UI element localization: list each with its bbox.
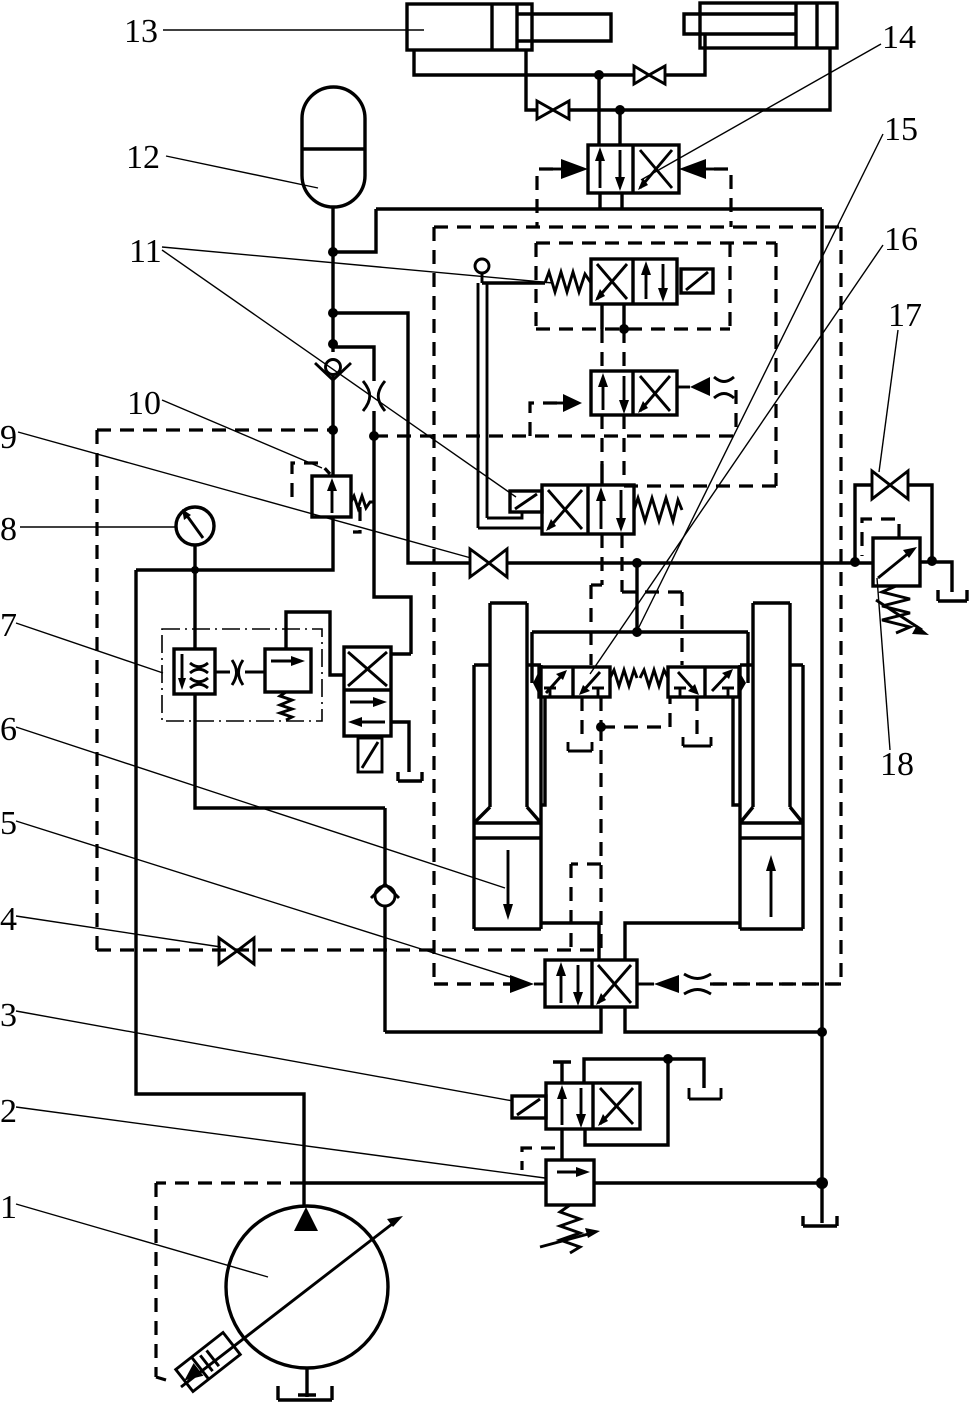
relief 18 pilot dash [862,519,899,556]
valve 11 top down arrow [658,264,668,302]
pilot dash valve14 left [537,169,553,227]
svg-text:13: 13 [124,13,158,50]
valve 5 body [545,960,637,1007]
accumulator 12 [302,87,365,207]
relief tank [938,590,967,601]
svg-text:17: 17 [888,297,922,334]
cylinder right taper [740,807,803,823]
wire left main down [136,570,304,1207]
wire valve14 right port down [620,193,623,209]
valve 11 top body [591,259,677,304]
node R3 [927,556,937,566]
dashed enclosure main block [434,227,841,984]
node TP [596,722,606,732]
dash-dot box 7 [162,629,322,721]
node A4 [328,425,338,435]
twin valve left arrow2 [579,672,600,695]
leader 8 [20,526,176,528]
dashed pilot box1 [536,243,776,329]
node V3 [663,1054,673,1064]
wire valve14 left port down [598,193,601,209]
valve 11 bottom up arrow [596,487,606,529]
wire to bottom tank [820,1183,823,1223]
bottom right tank [803,1216,837,1226]
node A3 [328,339,338,349]
selector valve body [344,647,391,736]
valve 11 top up arrow [641,261,651,299]
leader 14 [641,44,881,180]
flow valve 7 left box [174,649,215,694]
dash pilot line y436 [374,434,736,437]
dash twin right drain [695,697,698,737]
wire twin right port to cylinder [733,697,740,805]
wire right cyl bottom port [625,923,740,960]
pump 1 circle [226,1206,388,1368]
wire valve2 out [594,1181,822,1184]
wire accumulator stem [331,207,334,352]
svg-text:5: 5 [0,805,17,842]
leader 12 [166,156,318,188]
cylinder right barrel [740,665,803,929]
valve3 tank [689,1088,721,1099]
relief valve 2 body [546,1160,594,1205]
selector solenoid [358,738,382,772]
selector tank [391,722,422,781]
leader 3 [16,1011,513,1101]
valve 3 crossed arrows [598,1088,633,1126]
dash pump pilot [156,1183,304,1380]
svg-text:18: 18 [880,746,914,783]
leader 4 [16,916,221,947]
cylinder 13 left rod [517,14,611,41]
wire bar right drop [746,632,749,683]
twin left drain tank [568,742,592,751]
wire throttle down [374,411,411,654]
twin valve right actuator [739,671,746,695]
leader 13 [163,29,424,31]
pump outlet triangle [294,1207,318,1231]
cylinder 13 left piston [492,4,517,50]
wire pump discharge [304,1181,546,1184]
leader 10 [162,400,322,468]
valve 10 spring [351,496,373,508]
twin valve right arrow1 [678,672,699,695]
valve 14 down arrow [615,150,625,191]
selector valve X [348,652,387,686]
cylinder right rod [753,603,790,807]
leader 16 [590,245,883,674]
dash valve5 left pilot [434,982,510,985]
node A2 [328,308,338,318]
linkage double line [478,283,487,528]
wire bowtie2 to right cyl cap port [569,48,830,110]
leader 1 [16,1204,268,1277]
svg-text:6: 6 [0,711,17,748]
valve 14 body [588,145,679,193]
leader 7 [16,623,163,673]
valve 11 top crossed arrows [595,264,627,301]
valve 5 throttle [684,974,711,994]
cylinder 6 left piston line [474,836,541,839]
twin right drain tank [683,737,711,746]
dash valve5 right pilot [713,982,841,985]
wire branch to throttle [333,347,374,381]
wire bar left drop [530,632,533,683]
wire valve10 down [136,517,333,570]
valve 11 bottom crossed arrows [546,490,582,531]
twin valve left tanks [544,688,604,696]
relief 18 adjust arrow [876,600,929,635]
cylinder 6 left barrel [474,665,541,929]
wire J1 down to valve14 [597,75,600,145]
dashed pilot box3 [622,243,776,486]
leader 9 [18,432,471,558]
dash valve11b top ports [602,415,624,485]
svg-text:11: 11 [129,233,162,270]
twin valve right body [668,667,739,697]
pump variable arrow [181,1216,403,1387]
linkage L outer [478,527,542,530]
valve 3 up arrow [557,1085,567,1125]
wire branch to relief line [333,313,408,561]
valve 11 bottom body [542,485,634,534]
dashed enclosure left block [97,430,601,950]
twin valve left actuator [533,671,539,695]
node BAR [632,627,642,637]
valve 16 right pilot arrow [677,377,710,396]
valve 5 up arrow [556,962,566,1003]
svg-text:3: 3 [0,997,17,1034]
relief assembly riser [855,485,872,562]
valve 2 spring [560,1205,580,1253]
valve 16 left pilot arrow [557,394,582,412]
valve 11 top spring [545,272,591,292]
compensator 7 right box [265,649,311,692]
wire valve11b top left port [600,464,603,485]
svg-text:15: 15 [884,111,918,148]
pressure reducing valve 10 [312,476,351,517]
svg-text:1: 1 [0,1189,17,1226]
wire riser to bar [635,563,638,632]
valve 14 right solenoid arrow [679,159,714,179]
valve 3 plug port [553,1062,571,1083]
node P1 [816,1177,828,1189]
svg-text:14: 14 [882,19,916,56]
dash pilot long down [571,727,601,950]
dash valve16 right pilot down [734,390,737,436]
leader 11b [162,250,516,497]
dash valve16 top ports [602,329,624,371]
cylinder 6 left rod [490,603,527,807]
svg-text:9: 9 [0,419,17,456]
cylinder right up arrow [766,855,776,917]
leader 5 [16,821,513,978]
check valve main line [315,360,351,381]
compensator spring [280,692,292,720]
shutoff valve top-left [537,101,569,119]
node gauge tee [191,566,199,574]
wire relief line [408,561,873,563]
wire valve11top bottom ports [602,304,624,329]
shutoff valve 4 [219,938,254,964]
cylinder 13 right rod [684,14,796,34]
dash valve2 pilot [522,1148,555,1170]
node A1 [328,247,338,257]
throttle 7 [232,660,243,685]
shutoff valve 17 [872,471,908,499]
cylinder 13 right body [700,3,837,48]
wire left cyl bottom port [541,923,599,960]
wire left cyl cap port [414,50,599,75]
svg-text:10: 10 [127,385,161,422]
svg-text:12: 12 [126,139,160,176]
valve 16 up arrow [598,373,608,410]
pressure gauge 8 [176,507,214,545]
node J2 [615,105,625,115]
check valve lift line [371,884,399,906]
shutoff valve 9 [470,549,507,577]
wire bowtie to right cyl rod port [665,34,705,75]
valve 5 crossed arrows [596,965,631,1005]
pilot dash valve14 right [714,169,731,227]
wire J1 to bowtie [599,73,634,76]
wire manifold top rail [333,209,822,252]
cylinder right piston line [740,836,803,839]
valve 5 left pilot arrow [510,975,545,993]
svg-text:7: 7 [0,607,17,644]
leader 2 [16,1107,545,1178]
valve 11 bottom spring [634,498,682,521]
pump servo box [176,1332,241,1391]
wire twin left port to cylinder [541,697,545,805]
cylinder 13 right piston [796,3,817,48]
node R2 [850,557,860,567]
relief 18 spring [882,586,910,633]
valve 3 body [546,1083,640,1129]
throttle valve A [363,381,385,411]
valve 3 solenoid [512,1096,546,1118]
wire pump suction [298,1368,316,1397]
wire pilot line to valve 11 top [482,281,545,284]
wire 7 internal [215,671,265,674]
linkage L inner [487,512,522,518]
valve 16 crossed arrows [638,376,670,413]
valve 14 crossed arrows [638,150,672,190]
dash twin pilot junction [601,697,670,727]
cylinder 6 left down arrow [503,850,513,920]
valve 16 throttle [714,377,734,398]
twin valve springs [610,670,668,686]
cylinder 13 left body [407,4,532,50]
valve 11 bottom down arrow [616,490,626,532]
svg-text:2: 2 [0,1093,17,1130]
leader 6 [16,727,505,888]
leader 18 [877,578,890,750]
valve 2 adjust arrow [540,1228,600,1247]
shutoff valve top-right [634,66,665,84]
wire relief out [920,562,952,592]
dash twin left drain [580,697,583,742]
valve 5 down arrow [573,965,583,1006]
wire bowtie17 right [908,485,932,561]
node B1 [619,324,629,334]
twin valve left body [539,667,610,697]
leader 11a [162,247,553,283]
valve 11 bottom solenoid [510,491,542,512]
leader 17 [879,330,898,472]
dash pilot to valve16 left [530,403,557,436]
svg-text:8: 8 [0,511,17,548]
wire valve5 bottom right [625,1007,822,1032]
wire valve3 loop [584,1059,704,1145]
wire valve5 bottom left [385,1007,601,1032]
wire comp7 top pipe [286,612,344,675]
valve 11 top solenoid [681,269,713,293]
leader 15 [637,134,883,631]
cylinder 6 left taper [474,807,541,823]
svg-text:16: 16 [884,221,918,258]
wire tank return right [820,209,823,1183]
node R1 [632,558,642,568]
valve 10 pilot dash bottom [353,507,360,532]
valve 14 left solenoid arrow [553,159,588,179]
wire valve3 to valve2 [560,1129,563,1160]
twin valve right arrow2 [712,669,733,691]
pilot circle linkage 11 [475,259,489,283]
wire comp7 bottom [195,694,385,808]
valve 10 pilot dash top [292,463,330,497]
valve 16 body [591,371,677,415]
node J1 [594,70,604,80]
node A5 [369,431,379,441]
wire check to valve10 [331,373,334,476]
wire left cyl rod port [526,50,537,110]
wire selector top right port [391,652,411,655]
twin valve right tanks [674,688,734,696]
twin valve left arrow1 [546,670,567,693]
node V5R [817,1027,827,1037]
wire top bar [532,630,748,633]
valve 16 down arrow [619,376,629,414]
valve 3 down arrow [576,1088,586,1128]
relief valve 18 body [873,538,920,586]
dash valve11b bottom pilots [591,534,682,665]
wire J2 down to valve14 [618,110,621,145]
valve 14 up arrow [595,147,605,188]
wire gauge stem [193,545,196,649]
wire check2 line [383,808,386,1032]
pump tank [278,1386,332,1400]
svg-text:4: 4 [0,901,17,938]
valve 5 right pilot arrow [637,975,679,993]
selector valve arrows [348,697,387,727]
